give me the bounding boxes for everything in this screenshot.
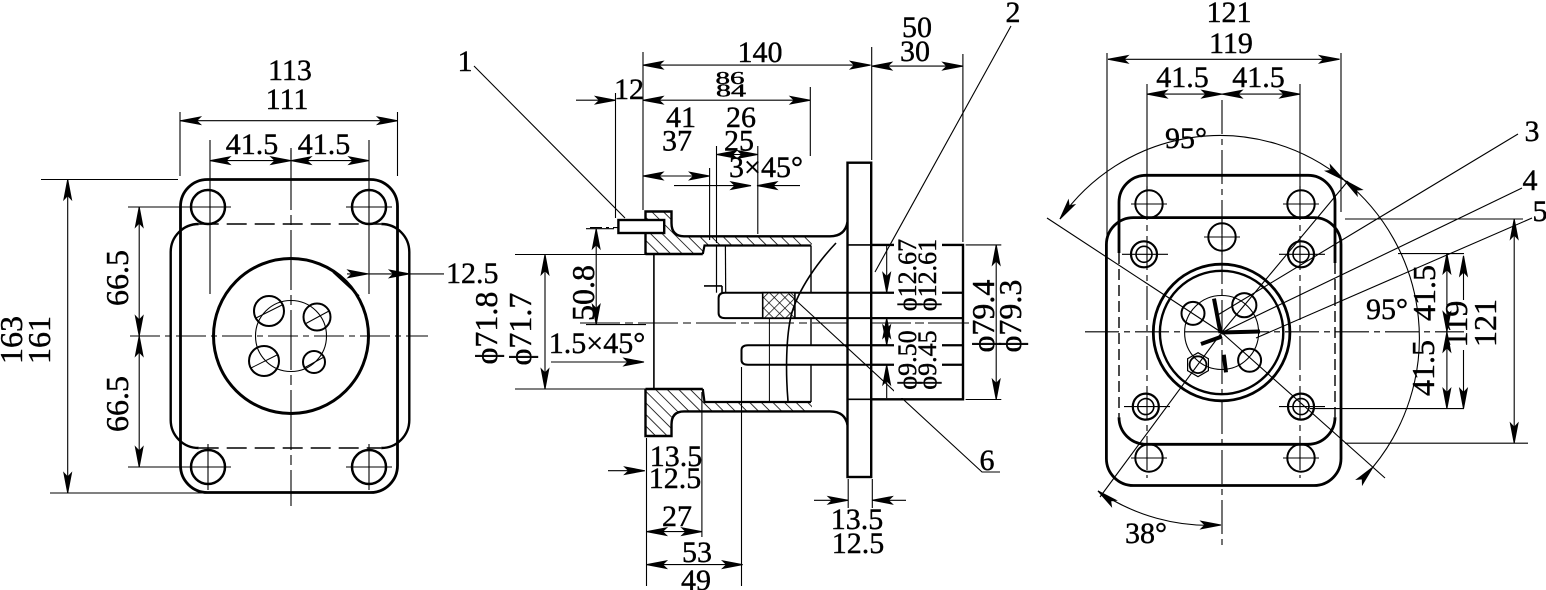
pin centerline [590,227,675,229]
bore top edge [646,253,703,255]
dimension 66.5 extension lines [128,206,192,208]
lower shaft bore lines [748,344,963,346]
gear axis ray down-left through BL hole [1100,333,1222,498]
ext line pin left [615,93,617,218]
svg-text:1.5×45°: 1.5×45° [549,327,645,360]
gear axis ray down-right through BR hole [1222,333,1385,479]
svg-text:1: 1 [458,45,473,78]
bolt circle top-right [1287,190,1314,217]
svg-text:49: 49 [681,564,711,590]
svg-text:84: 84 [716,81,746,101]
svg-text:50.8: 50.8 [565,265,601,321]
svg-text:66.5: 66.5 [99,376,135,432]
re-draw shaft lines over plate [848,293,964,365]
ext lines below [646,438,648,586]
svg-text:ϕ71.8: ϕ71.8 [468,292,504,365]
right side ext lines [1345,218,1523,220]
leader 3 [1216,134,1518,316]
svg-text:119: 119 [1209,27,1253,60]
thin line below seal block [768,318,770,402]
centerline main [580,322,975,324]
hatched bottom flange/wall section [646,389,813,436]
svg-text:95°: 95° [1366,293,1408,326]
svg-text:41.5: 41.5 [1406,265,1442,321]
ext line 26/25 left [716,146,718,243]
svg-text:3: 3 [1525,115,1540,148]
cavity bottom inner edge [703,389,811,402]
plug hole bottom-left [1190,356,1207,373]
dimension line 50/30 [872,65,963,67]
washer circles bottom [1133,394,1159,420]
dimension line 41/37 [643,175,710,177]
section plane thick marks [1222,332,1260,333]
dimension lines 41.5/41.5 right [1446,254,1448,332]
outline: left flange bottom [646,389,685,436]
right view texts [1125,0,1546,550]
svg-text:41.5: 41.5 [298,128,351,161]
sleeve outer bottom edge + fillet to plate [684,411,848,425]
hatched top flange/wall section [646,212,813,255]
leader 4 [1222,188,1522,333]
95 degree arc top-left [1060,135,1344,219]
bolt circle top-left [1135,190,1162,217]
dimension 3x45 arrows [674,185,751,187]
vertical centerline [290,150,292,506]
svg-text:66.5: 66.5 [99,250,135,306]
seal cross-hatched block part 6 [763,293,795,318]
ext line left main [642,52,644,210]
main centerlines [1085,331,1464,333]
dimension phi79.4/79.3 [966,244,1002,246]
circle cross ticks [1122,204,1325,458]
bolt circle top-middle [1208,223,1235,250]
bolt hole bottom-left [191,450,225,484]
small pin part 1 [618,220,664,233]
svg-text:41.5: 41.5 [1156,61,1209,94]
middle view texts [458,0,1029,590]
svg-text:140: 140 [738,36,783,69]
cover outline A hidden parts [1118,253,1120,417]
flange plate outline [181,180,398,493]
dimension line 27 [647,531,702,533]
svg-text:ϕ71.7: ϕ71.7 [502,293,538,366]
outline: left flange top [646,212,685,255]
upper slot mouth step [704,285,722,287]
pin step lines [716,246,718,293]
hole positioning thin circle [1185,296,1259,370]
svg-text:37: 37 [662,125,692,158]
svg-text:5: 5 [1533,195,1546,228]
small hole bottom-right [303,351,325,373]
bolt circle bottom-right [1287,444,1314,471]
ext line plate right top [871,47,873,160]
svg-text:111: 111 [266,83,309,116]
leader 1.5x45 [551,361,644,363]
gear axis ray up-right through TR hole [1222,181,1348,333]
hole positioning thin circle [256,301,327,372]
svg-text:161: 161 [21,316,57,364]
mounting plate part 2 [848,163,872,477]
svg-text:4: 4 [1523,164,1538,197]
bolt hole top-right [352,190,386,224]
bolt hole top-left [191,190,225,224]
gear hole top-right [1232,293,1256,317]
bolt column centerlines [1146,186,1148,478]
dimension 121/119 top ext lines [1106,53,1108,240]
dimension line 41.5 left [210,160,291,162]
central boss circle [214,259,369,414]
bolt hole cross ticks [185,207,392,490]
leader 5 [1256,218,1532,338]
leader 6 [789,294,1000,472]
body outline (hidden edges dashed) [171,224,199,252]
svg-text:121: 121 [1467,299,1503,347]
svg-text:12: 12 [614,73,644,106]
cavity top inner edge [703,246,811,255]
small hole top-right [304,304,331,331]
dimension line 121/119 top [1108,58,1340,60]
bolt circle bottom-left [1135,444,1162,471]
95 degree arc right [1344,180,1419,467]
bolt hole bottom-right [352,450,386,484]
upper shaft bore lines [725,292,963,294]
dimension line 41.5 right [291,160,369,162]
gear axis ray up-left through TL hole [1047,218,1222,333]
svg-text:95°: 95° [1165,122,1207,155]
horizontal centerline [130,335,428,337]
ext line 41/37 right [709,168,711,240]
dimension line 113/111 [181,120,398,122]
dimension line 53 [647,564,743,566]
sleeve outer top edge + fillet to plate [684,222,848,236]
svg-text:2: 2 [1006,0,1021,29]
svg-text:ϕ79.3: ϕ79.3 [992,280,1028,353]
dimension 50.8 [586,228,614,230]
leader 1 [474,66,625,218]
ext line hub right top [962,54,964,242]
washer circles top [1131,241,1157,267]
svg-text:12.5: 12.5 [832,527,885,560]
svg-text:ϕ9.45: ϕ9.45 [913,330,942,389]
upper shaft rounded end [719,293,725,318]
ext line 26/25 right [757,146,759,234]
bore mouth chamfer line [653,254,655,389]
dimension 163/161 extension lines [41,179,178,181]
dimension phi12.67 phi9.50 [886,245,888,293]
bore bottom edge [646,388,703,390]
dimension line 26/25 [717,154,758,156]
svg-text:3×45°: 3×45° [729,151,803,184]
dimension 41.5/41.5 extension lines [209,140,211,294]
svg-text:ϕ12.61: ϕ12.61 [913,239,942,311]
gear hole bottom-right [1238,349,1261,372]
hub right of plate [871,245,963,399]
cavity end wall segments [810,246,812,293]
svg-text:38°: 38° [1125,517,1167,550]
dimension line 163/161 [67,180,69,494]
small hole top-left [254,296,284,326]
central bore circles [1153,264,1290,401]
svg-text:12.5: 12.5 [446,257,499,290]
left view dimension texts [0,54,499,432]
text background masks over hub lines [894,239,942,312]
dimension line 119 right [1463,256,1465,300]
centerline over hub [871,322,975,324]
dimension line 66.5 upper [138,207,140,336]
svg-text:121: 121 [1207,0,1252,29]
dimension 113/111 extension lines [179,112,181,176]
dimension line 140 [643,64,871,66]
svg-text:12.5: 12.5 [649,462,702,495]
dimension line 66.5 lower [138,336,140,467]
svg-text:41.5: 41.5 [1405,340,1441,396]
lower shaft rounded end [742,345,749,365]
dimension 41.5 top ext lines [1146,84,1148,192]
dimension line 121 right [1513,219,1515,443]
dimension line 12 / 86-84 [576,99,616,101]
leader 2 [875,26,1011,272]
svg-text:30: 30 [900,35,930,68]
cover outline A solid parts [1119,175,1335,263]
svg-text:41.5: 41.5 [226,128,279,161]
gear hole top-left [1182,302,1205,325]
svg-text:6: 6 [980,444,995,477]
freehand break line [787,243,836,401]
dimension phi71.8/71.7 [515,254,652,256]
dimension line 12.5 [347,273,444,275]
ext line 84 right [809,87,811,156]
svg-text:41.5: 41.5 [1232,61,1285,94]
dimension lines 41.5 top [1147,93,1222,95]
small hole bottom-left [249,346,279,376]
arrow 13.5/12.5 left [608,470,645,472]
body outline B [1106,218,1341,486]
38 degree arc bottom-left [1098,491,1221,525]
svg-text:27: 27 [662,500,692,533]
dimension 13.5/12.5 right of plate [847,479,849,508]
